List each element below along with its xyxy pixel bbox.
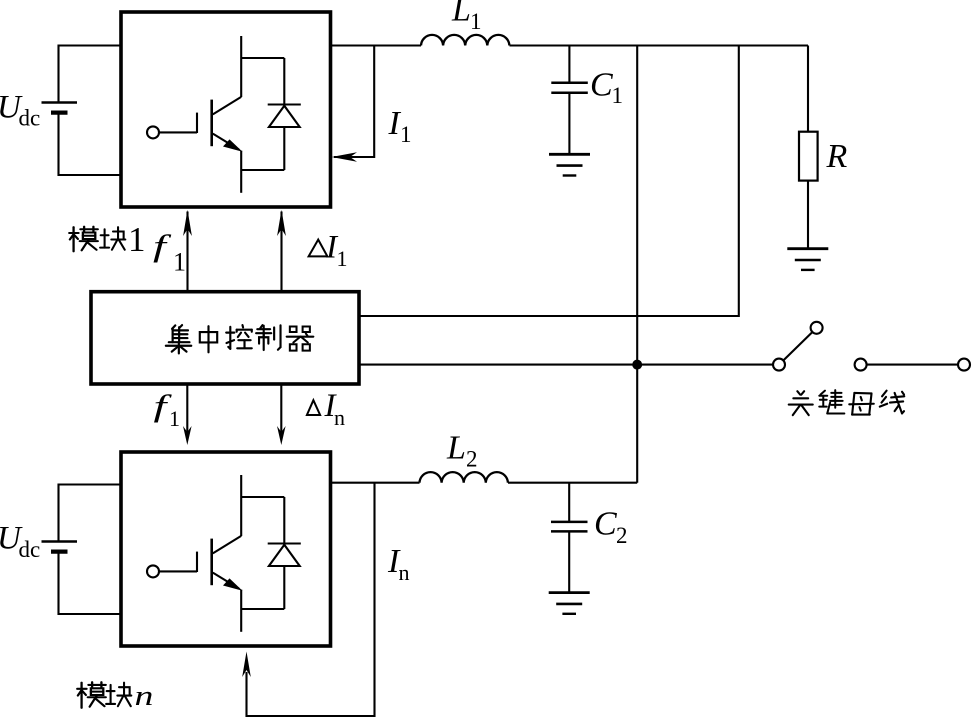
ground under C2	[549, 593, 590, 614]
wire: L2 to node vertical	[508, 482, 637, 484]
signal arrow dIn down into module n	[280, 384, 282, 437]
svg-text:L: L	[451, 0, 471, 29]
svg-text:2: 2	[466, 447, 478, 472]
svg-text:1: 1	[128, 220, 146, 259]
battery Udc of module 1 with wires	[42, 46, 122, 176]
signal arrow dI1 up into module 1	[280, 212, 282, 293]
label critical bus (关键母线)	[789, 390, 905, 415]
svg-text:1: 1	[173, 248, 186, 277]
svg-text:R: R	[826, 138, 848, 175]
wire: module n output to L2	[331, 482, 420, 484]
svg-text:1: 1	[169, 406, 180, 431]
wire: L1 to resistor branch (top rail)	[510, 44, 809, 46]
capacitor C2	[551, 483, 588, 593]
signal arrow f1 up into module 1	[186, 212, 188, 293]
svg-text:L: L	[446, 430, 466, 467]
ground under C1	[549, 154, 590, 175]
label delta In	[307, 400, 320, 415]
wire R to ground	[807, 181, 809, 249]
switch S1 (open) on critical bus	[773, 322, 823, 371]
svg-text:1: 1	[337, 246, 348, 271]
inductor L2	[420, 472, 508, 483]
resistor R branch wire	[807, 46, 809, 132]
svg-text:n: n	[135, 681, 154, 712]
capacitor C1	[551, 46, 588, 155]
svg-text:1: 1	[470, 9, 482, 34]
current sense I1 wire with arrow into module 1	[334, 46, 374, 158]
svg-text:dc: dc	[19, 537, 41, 562]
ground under R	[787, 249, 828, 270]
svg-text:1: 1	[400, 122, 412, 147]
module n box	[121, 452, 331, 646]
svg-text:n: n	[334, 405, 345, 430]
IGBT/diode symbol inside module n	[147, 475, 301, 632]
svg-text:1: 1	[612, 83, 624, 108]
bus stub with terminals (right)	[855, 359, 970, 371]
central controller box (集中控制器)	[91, 292, 359, 384]
label module 1 (模块1)	[69, 220, 145, 259]
svg-text:n: n	[399, 560, 410, 585]
label delta I1	[309, 240, 328, 257]
IGBT/diode symbol U1 inside module 1	[147, 36, 301, 193]
inductor L1	[421, 35, 509, 46]
battery Udc of module n with wires	[42, 485, 122, 615]
node vertical: top rail to critical bus junction and down to module n rail	[636, 46, 638, 483]
label module n (模块n)	[77, 681, 153, 712]
svg-text:C: C	[594, 506, 617, 543]
feedback vertical: top rail down to controller upper output	[359, 46, 739, 317]
svg-text:dc: dc	[19, 106, 41, 131]
module 1 box	[121, 12, 331, 207]
signal arrow f1 down into module n	[186, 384, 188, 437]
svg-text:C: C	[590, 67, 613, 104]
svg-text:2: 2	[616, 523, 628, 548]
current sense In loop wire with arrow into module n bottom	[247, 483, 375, 716]
critical bus wire from controller	[359, 364, 773, 366]
wire: module 1 output to L1	[331, 44, 422, 46]
resistor R body	[799, 132, 818, 181]
junction dot on critical bus	[632, 360, 642, 370]
